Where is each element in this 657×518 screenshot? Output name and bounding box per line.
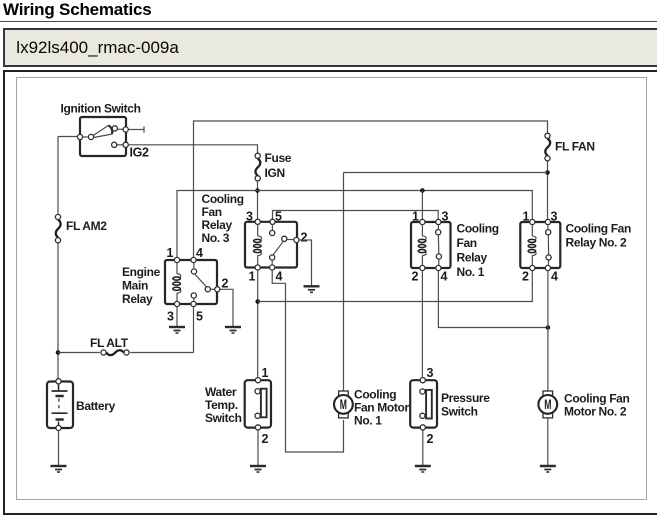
cooling fan relay no.3 K3 [245, 219, 299, 270]
pressure switch S3 [410, 378, 437, 430]
svg-text:Fan: Fan [457, 236, 477, 250]
svg-text:IG2: IG2 [130, 146, 149, 160]
label Cooling Fan Motor No. 1 [354, 388, 410, 428]
label Cooling Fan Motor No. 2 [564, 392, 629, 419]
svg-text:2: 2 [222, 277, 229, 291]
wire fuse to relay3 pin3 [257, 181, 259, 222]
svg-text:Temp.: Temp. [205, 398, 238, 412]
svg-text:Switch: Switch [441, 405, 478, 419]
pin labels relay2 [522, 210, 558, 284]
node fuse junction [255, 188, 260, 193]
svg-text:Cooling Fan: Cooling Fan [566, 222, 631, 236]
svg-text:No. 1: No. 1 [354, 414, 382, 428]
wire engine relay pin3 to ground [176, 307, 178, 326]
battery B1 [47, 379, 73, 431]
wire IG2 to fuse [129, 145, 258, 154]
cooling fan relay no.1 K1 [411, 219, 451, 270]
svg-text:2: 2 [262, 432, 269, 446]
cooling fan motor no.1 M1 [334, 391, 353, 418]
engine main relay U1 [165, 257, 220, 306]
node relay1 junction [420, 188, 425, 193]
label Engine Main Relay [122, 265, 161, 306]
svg-text:Ignition Switch: Ignition Switch [61, 102, 141, 116]
wire relay3 pin2 to ground [300, 240, 312, 286]
svg-text:4: 4 [551, 270, 558, 284]
svg-text:Cooling: Cooling [202, 192, 244, 206]
ground battery [51, 466, 67, 472]
svg-text:Cooling Fan: Cooling Fan [564, 392, 629, 406]
fuse IGN [255, 153, 260, 181]
wire FL FAN to relay2 pin3 [547, 161, 549, 222]
svg-text:4: 4 [276, 270, 283, 284]
svg-text:Fan: Fan [202, 205, 222, 219]
wire motor2 to ground [547, 418, 549, 466]
label Water Temp Switch [205, 385, 242, 425]
wire pressure switch to ground [422, 431, 424, 466]
wire top feed line [194, 121, 548, 260]
svg-text:Fan Motor: Fan Motor [354, 401, 410, 415]
label Battery [76, 399, 116, 413]
node water temp junction [255, 299, 260, 304]
pin labels relay1 [412, 210, 449, 284]
label Cooling Fan Relay No. 1 [457, 222, 499, 280]
node junction FL ALT [56, 350, 61, 355]
svg-text:FL ALT: FL ALT [90, 336, 129, 350]
svg-text:1: 1 [262, 366, 269, 380]
svg-text:Relay: Relay [457, 251, 488, 265]
svg-text:Cooling: Cooling [354, 388, 396, 402]
label FL AM2 [66, 219, 107, 233]
fusible link FL AM2 [55, 214, 60, 242]
filename field [3, 28, 657, 67]
svg-text:2: 2 [522, 270, 529, 284]
svg-text:No. 3: No. 3 [202, 231, 230, 245]
svg-text:2: 2 [412, 270, 419, 284]
cooling fan motor no.2 M2 [538, 391, 557, 418]
wire relay1 pin4 to motor2 column [438, 271, 548, 327]
label FL ALT [90, 336, 129, 350]
svg-text:2: 2 [427, 432, 434, 446]
svg-text:3: 3 [167, 310, 174, 324]
ground water temp [250, 466, 266, 472]
pin labels relay3 [246, 210, 308, 284]
page title [3, 0, 152, 20]
svg-text:3: 3 [551, 210, 558, 224]
svg-text:5: 5 [196, 310, 203, 324]
ground motor2 [540, 466, 556, 472]
ground pressure switch [415, 466, 431, 472]
label Fuse IGN [265, 151, 292, 180]
wire FL ALT run [58, 304, 194, 353]
svg-text:4: 4 [196, 246, 203, 260]
wire relay3 pin1 to water temp switch [257, 271, 259, 378]
label IG2 [130, 146, 149, 160]
svg-text:1: 1 [249, 270, 256, 284]
svg-text:3: 3 [246, 210, 253, 224]
inner frame [16, 77, 647, 500]
cooling fan relay no.2 K2 [520, 219, 560, 270]
svg-text:IGN: IGN [265, 166, 285, 180]
wire relay1 pin2 to pressure switch [421, 271, 423, 377]
svg-text:Switch: Switch [205, 411, 242, 425]
svg-text:Battery: Battery [76, 399, 116, 413]
svg-text:Motor No. 2: Motor No. 2 [564, 405, 627, 419]
svg-text:Relay: Relay [122, 292, 153, 306]
wire IG2 distribution line [177, 191, 532, 261]
node motor2 junction [546, 325, 551, 330]
svg-text:3: 3 [442, 210, 449, 224]
svg-text:Cooling: Cooling [457, 222, 499, 236]
label FL FAN [555, 140, 595, 154]
label Ignition Switch [61, 102, 141, 116]
svg-text:Engine: Engine [122, 265, 161, 279]
label Cooling Fan Relay No. 3 [202, 192, 244, 245]
label Pressure Switch [441, 391, 490, 419]
svg-text:5: 5 [275, 210, 282, 224]
fusible link FL FAN [545, 133, 550, 161]
wire ignition ACC stub [129, 126, 144, 132]
wire motor1 feed line [344, 173, 548, 392]
label Cooling Fan Relay No. 2 [566, 222, 631, 250]
svg-text:1: 1 [167, 246, 174, 260]
svg-text:M: M [544, 397, 551, 412]
wire engine relay pin2 to ground [220, 289, 233, 326]
svg-text:Relay: Relay [202, 218, 233, 232]
wire relay3 pin5 to relay1 pin3 [273, 211, 439, 223]
svg-text:1: 1 [523, 210, 530, 224]
svg-text:3: 3 [427, 366, 434, 380]
fusible link FL ALT [101, 350, 129, 355]
svg-text:Pressure: Pressure [441, 391, 490, 405]
wire pin1 junction to relay2 pin2 [258, 268, 533, 302]
svg-text:4: 4 [441, 270, 448, 284]
pin labels engine relay [167, 246, 229, 324]
ground engine relay pin3 [169, 327, 185, 333]
wire battery to ground [58, 431, 60, 465]
pin labels pressure switch [427, 366, 434, 446]
wire relay3 pin4 to motor1 bottom [272, 271, 343, 452]
svg-text:2: 2 [301, 231, 308, 245]
svg-text:1: 1 [412, 210, 419, 224]
node FL FAN junction [545, 170, 550, 175]
wire water temp to ground [257, 431, 259, 466]
pin labels water temp [262, 366, 269, 446]
svg-text:M: M [340, 397, 347, 412]
wire relay2 pin4 to motor2 [547, 271, 549, 391]
wire battery column [58, 137, 80, 382]
svg-text:Relay No. 2: Relay No. 2 [566, 236, 628, 250]
ground engine relay pin2 [225, 327, 241, 333]
svg-text:No. 1: No. 1 [457, 265, 485, 279]
ground relay3 pin2 [304, 286, 320, 292]
svg-text:Fuse: Fuse [265, 151, 292, 165]
svg-text:Water: Water [205, 385, 237, 399]
svg-text:FL AM2: FL AM2 [66, 219, 107, 233]
water temp switch S2 [245, 378, 271, 430]
ignition switch S1 [77, 117, 128, 156]
svg-text:Main: Main [122, 279, 148, 293]
wire to relay1 pin1 [421, 191, 423, 223]
svg-text:FL FAN: FL FAN [555, 140, 595, 154]
